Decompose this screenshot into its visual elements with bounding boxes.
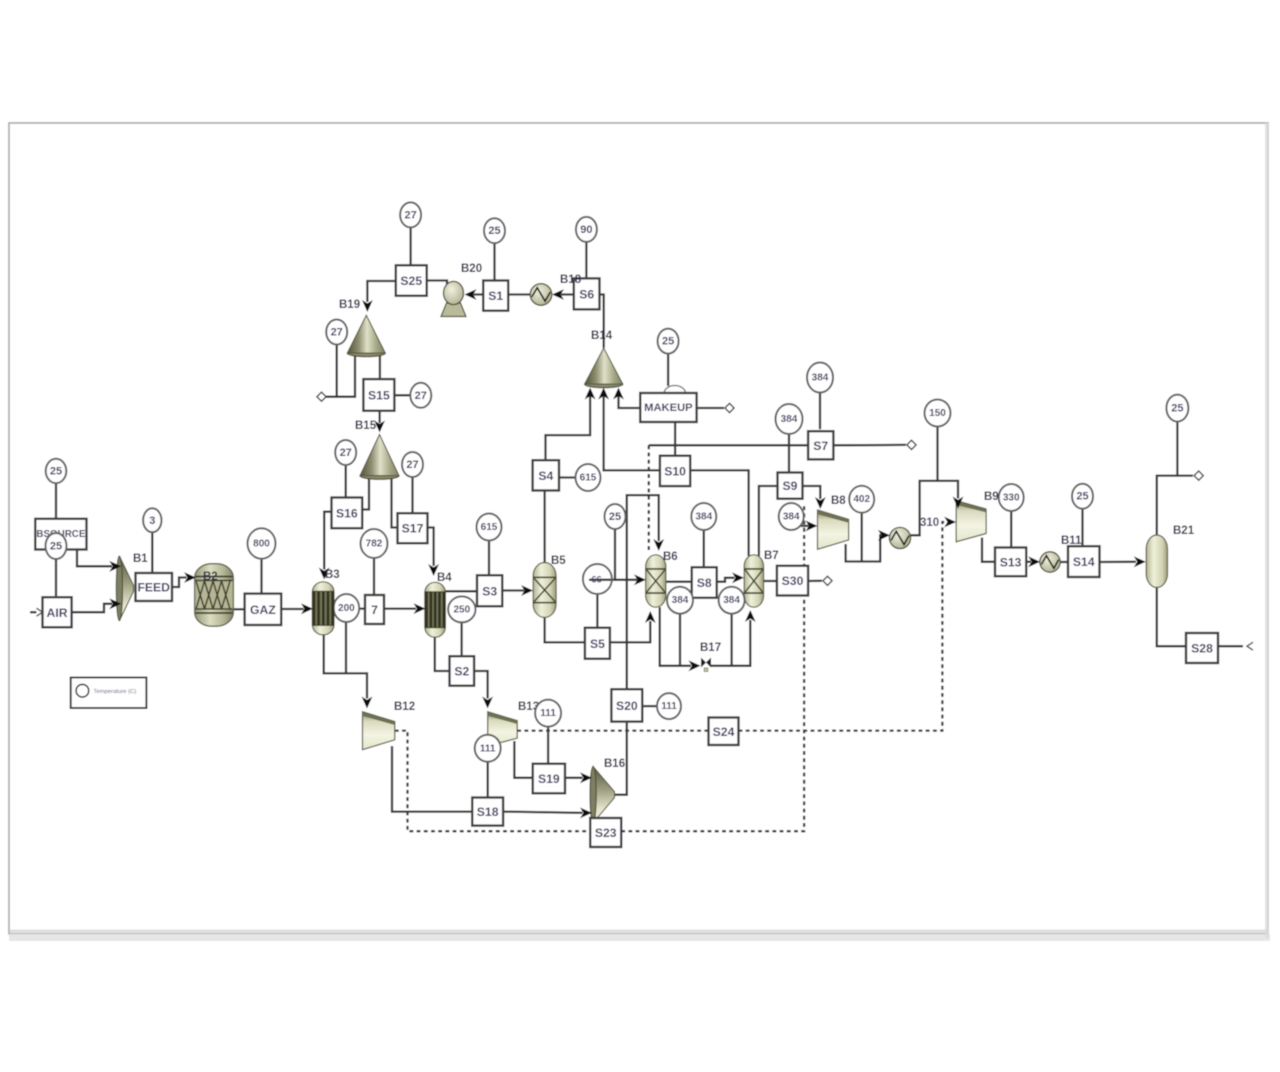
wire S16 to B3 tube inlet <box>324 512 331 570</box>
svg-text:B20: B20 <box>461 263 482 275</box>
svg-text:B21: B21 <box>1173 525 1195 537</box>
wire B15 left outlet to S16 box <box>362 476 369 510</box>
stream label box S1 <box>483 281 508 311</box>
wire 7 box to B4 <box>384 607 416 609</box>
svg-text:90: 90 <box>580 224 592 236</box>
wire B13 outlet to S19 box <box>514 741 532 778</box>
svg-text:384: 384 <box>723 595 740 606</box>
temperature circle 782 above 7 box <box>361 529 388 558</box>
temperature circle 25 above AIR <box>46 533 67 559</box>
wire 25 circle down to B6 inlet line <box>614 529 616 580</box>
stream label box S18 <box>472 798 503 826</box>
wire S9 to B7 top <box>759 486 778 556</box>
svg-text:800: 800 <box>253 539 270 550</box>
svg-text:310: 310 <box>920 517 939 529</box>
wire AIR to B1 lower inlet <box>72 604 112 612</box>
svg-text:S6: S6 <box>579 287 594 301</box>
dashed work stream B13 to S24 box <box>517 729 708 731</box>
wire 25 circle to S14 box <box>1081 509 1083 546</box>
svg-text:250: 250 <box>453 604 470 615</box>
reactor B5 <box>533 563 556 618</box>
temperature circle 402 above B8 outlet <box>849 486 874 513</box>
wire B18 to S1 box <box>508 293 530 295</box>
svg-text:25: 25 <box>662 336 674 348</box>
svg-text:S17: S17 <box>402 522 424 536</box>
wire 330 circle to S13 box <box>1010 511 1012 548</box>
wire 3 circle to FEED box <box>151 532 153 573</box>
dashed work stream S23 to B8 <box>621 506 804 831</box>
arrowhead into B5 <box>521 585 533 596</box>
svg-text:S10: S10 <box>664 464 686 478</box>
svg-text:S24: S24 <box>713 725 735 739</box>
heat exchanger B3 (shell and tube) <box>312 582 334 635</box>
svg-text:MAKEUP: MAKEUP <box>644 402 693 414</box>
svg-text:B8: B8 <box>831 495 846 507</box>
temperature circle 200 (behind B3) <box>334 594 360 622</box>
svg-text:25: 25 <box>50 466 62 478</box>
wire 384 circle tee down <box>679 614 681 666</box>
wire S8 to B7 <box>717 578 735 582</box>
stream label box S23 <box>590 818 621 847</box>
wire 111 circle to S18 box <box>487 762 489 798</box>
svg-text:3: 3 <box>149 515 155 527</box>
svg-text:S23: S23 <box>595 826 617 840</box>
svg-text:384: 384 <box>812 373 829 384</box>
svg-text:Temperature (C): Temperature (C) <box>94 689 137 695</box>
temperature circle 800 above GAZ <box>248 528 276 558</box>
stream label box S6 <box>574 278 600 309</box>
svg-text:66: 66 <box>591 575 601 585</box>
open diamond export B21 vapour <box>1194 471 1203 480</box>
wire B4 bottom to S2 box <box>435 637 450 671</box>
wire S15 down to B15 <box>378 411 380 423</box>
arrowhead into B10 <box>878 530 890 541</box>
stream label box S15 <box>363 379 394 411</box>
wire 384 circle tee down right <box>730 614 732 666</box>
arrowhead into B1 upper inlet <box>109 561 121 572</box>
svg-text:S3: S3 <box>482 584 497 598</box>
stream label box S7 <box>808 431 833 459</box>
temperature circle 90 above S6 <box>576 217 597 242</box>
arrowhead into B9 top <box>953 497 964 509</box>
arrowhead into B21 <box>1134 556 1146 567</box>
wire S25 to B19 inlet <box>367 281 395 302</box>
arrowhead into B3 top <box>319 568 330 580</box>
svg-text:615: 615 <box>481 522 498 533</box>
splitter B15 <box>360 435 399 480</box>
wire S6 to B18 <box>561 293 574 295</box>
svg-text:330: 330 <box>1003 493 1020 504</box>
stream label box BSOURCE <box>35 519 86 550</box>
mixer B1 <box>116 556 133 621</box>
arrowhead into B17 valve <box>689 660 701 671</box>
svg-text:27: 27 <box>406 459 418 471</box>
splitter B19 <box>347 315 385 357</box>
svg-text:S18: S18 <box>477 805 499 819</box>
svg-text:S28: S28 <box>1191 642 1213 656</box>
svg-text:B17: B17 <box>700 642 721 654</box>
temperature circle 150 above B9 <box>925 400 951 427</box>
wire S14 to B21 <box>1100 561 1137 564</box>
wire 800 circle to GAZ box <box>260 559 262 594</box>
arrowhead into B14 middle <box>598 388 609 400</box>
dashed heat stream B6 to S7 line <box>648 445 650 552</box>
wire 615 circle to S3 box <box>488 541 490 575</box>
temperature circle 27 above S16 <box>335 440 356 465</box>
wire S3 to B5 <box>502 589 524 591</box>
svg-text:25: 25 <box>50 541 62 553</box>
arrowhead into B2 <box>184 572 196 583</box>
wire S17 to B4 tube inlet <box>428 528 434 567</box>
temperature circle 250 right of B4 <box>448 596 475 622</box>
stream label box GAZ <box>245 594 282 625</box>
wire B4 to S3 box <box>445 590 477 592</box>
svg-text:27: 27 <box>340 447 352 459</box>
temperature circle 384 below left of S8 <box>667 587 693 614</box>
svg-text:111: 111 <box>540 708 556 719</box>
svg-text:S16: S16 <box>336 506 358 520</box>
wire FEED to B2 <box>172 578 187 588</box>
svg-text:384: 384 <box>783 512 800 523</box>
svg-text:GAZ: GAZ <box>250 603 276 617</box>
temperature circle 27 right of S15 <box>410 383 431 408</box>
wire B3 bottom to B12 inlet <box>324 635 367 699</box>
arrowhead into B20 pump <box>465 289 477 300</box>
svg-text:25: 25 <box>488 225 500 237</box>
wire 384 circle to S8 box <box>703 530 705 567</box>
svg-text:B1: B1 <box>133 553 148 565</box>
wire 25 circle to S1 box <box>493 243 495 281</box>
svg-text:B2: B2 <box>203 571 218 583</box>
feed arrow into AIR box <box>37 608 43 616</box>
svg-text:384: 384 <box>781 414 798 425</box>
svg-text:782: 782 <box>366 539 383 550</box>
svg-text:384: 384 <box>672 595 689 606</box>
wire B19 right outlet to S15 box <box>379 353 381 379</box>
svg-text:S15: S15 <box>368 388 390 402</box>
arrowhead into B8 top <box>815 497 826 509</box>
svg-text:S13: S13 <box>1000 555 1022 569</box>
arrowhead into B12 <box>362 697 373 709</box>
wire B10 to B9 inlet <box>910 481 958 535</box>
mixer B14 <box>585 348 623 388</box>
legend box Temperature (C) <box>71 678 147 709</box>
open diamond export after S30 <box>823 576 832 585</box>
svg-text:S9: S9 <box>783 479 798 493</box>
wire B15 right outlet to S17 box <box>392 476 398 528</box>
svg-text:B16: B16 <box>604 758 625 770</box>
wire B12 outlet to S18 box <box>392 746 472 812</box>
wire 384 circle stub to B8 <box>800 525 809 527</box>
arrowhead into B11 <box>1028 556 1040 567</box>
arrowhead into B15 apex <box>374 421 385 433</box>
temperature circle 66 at B6 inlet <box>583 564 612 594</box>
svg-text:111: 111 <box>661 701 677 712</box>
svg-text:S7: S7 <box>813 439 828 453</box>
svg-text:B12: B12 <box>394 701 415 713</box>
pump B20 <box>441 281 466 316</box>
wire GAZ to B3 <box>281 608 303 610</box>
temperature circle 111 right of S20 <box>657 693 681 719</box>
svg-text:AIR: AIR <box>47 606 68 620</box>
temperature circle 25 above B21 export <box>1166 395 1188 422</box>
svg-text:S4: S4 <box>538 469 553 483</box>
stream label box S24 <box>709 718 739 746</box>
wire 200 circle down to B12 line <box>345 622 347 673</box>
wire S10 to MAKEUP box <box>674 422 676 455</box>
temperature circle 25 above B6 <box>605 504 626 529</box>
svg-text:S14: S14 <box>1073 555 1095 569</box>
svg-text:25: 25 <box>609 511 621 523</box>
wire S2 to B13 inlet <box>474 671 488 699</box>
stream label box S2 <box>450 656 475 686</box>
wire 27 circle to S25 box <box>409 227 411 265</box>
svg-text:B6: B6 <box>663 551 678 563</box>
mixer B16 <box>590 767 615 823</box>
svg-text:S5: S5 <box>590 637 605 651</box>
svg-text:B4: B4 <box>437 572 452 584</box>
wire 111 circle to S19 box <box>547 727 549 764</box>
wire S18 to B16 lower inlet <box>503 812 582 813</box>
wire 782 circle to 7 box <box>373 558 375 595</box>
arrowhead into B3 shell inlet <box>301 603 313 614</box>
temperature circle 384 above S8 <box>691 503 716 530</box>
svg-text:27: 27 <box>404 209 416 221</box>
wire 384 circle down to S9 box <box>788 434 790 473</box>
wire 250 circle to S2 box <box>460 622 462 656</box>
svg-text:615: 615 <box>580 473 597 484</box>
stream label box S30 <box>777 566 808 596</box>
arrowhead into B16 lower <box>580 808 592 819</box>
wire heat stream line to S7 box <box>649 444 808 446</box>
arrowhead into B8 left <box>806 521 818 532</box>
stream label box S28 <box>1186 633 1218 663</box>
dashed work stream B12 to S23 box <box>395 731 590 832</box>
arrowhead into B6 left <box>634 574 646 585</box>
svg-text:S1: S1 <box>488 289 503 303</box>
turbine B8 <box>818 510 849 549</box>
temperature circle 384 below S9 <box>779 503 804 530</box>
svg-text:S20: S20 <box>616 699 638 713</box>
arrowhead into B9 left <box>944 517 956 528</box>
wire S1 to B20 <box>474 293 484 295</box>
svg-text:27: 27 <box>415 390 427 402</box>
svg-text:B19: B19 <box>339 299 360 311</box>
arrowhead into B6 top <box>653 539 664 551</box>
temperature circle 27 above S17 <box>402 452 423 477</box>
temperature circle 25 above S14 <box>1072 484 1093 509</box>
wire B20 pump outlet to S25 box <box>427 281 447 289</box>
reactor B6 <box>646 555 666 607</box>
svg-text:402: 402 <box>853 494 870 505</box>
flash drum B21 <box>1146 535 1167 588</box>
wire 27 circle to S17 box <box>411 477 413 513</box>
svg-text:S30: S30 <box>782 574 804 588</box>
temperature circle 27 left of B19 <box>326 320 347 345</box>
wire S20 up and into B6 top <box>627 495 659 689</box>
stream label box FEED <box>136 573 173 601</box>
svg-text:150: 150 <box>929 408 946 419</box>
svg-text:B3: B3 <box>325 569 340 581</box>
wire B11 to S14 box <box>1060 561 1068 563</box>
arrowhead into B19 apex <box>362 300 373 312</box>
wire S4 to B14 left inlet <box>546 395 591 460</box>
wire B21 bottom to S28 box <box>1157 588 1186 647</box>
wire S28 to export <box>1218 645 1243 647</box>
wire 27 circle tee to B19 export line <box>336 345 338 397</box>
stream label box S14 <box>1068 546 1100 577</box>
wire S9 to B8 inlet <box>803 486 821 499</box>
arrowhead into B6 bottom <box>645 611 656 623</box>
stream label box AIR <box>43 597 72 627</box>
turbine B12 <box>363 712 395 750</box>
arrowhead into B14 left <box>585 388 596 400</box>
stream label box S17 <box>398 513 428 543</box>
stream label box S20 <box>611 689 642 721</box>
temperature circle 384 below right of S8 <box>719 587 745 614</box>
arrowhead into B4 shell inlet <box>414 603 426 614</box>
stream label box S10 <box>660 456 690 486</box>
wire B21 top vapour to export <box>1157 476 1193 535</box>
open arrow end after S28 <box>1247 642 1253 650</box>
wire S7 to export <box>833 444 906 447</box>
open diamond export after S7 <box>907 440 916 449</box>
svg-text:B7: B7 <box>764 550 779 562</box>
svg-text:25: 25 <box>1076 491 1088 503</box>
wire B14 outlet up to S6 box <box>600 295 604 349</box>
stream label box S19 <box>533 764 565 794</box>
temperature circle 25 above MAKEUP <box>658 329 679 354</box>
wire B6 to S8 box <box>666 581 692 583</box>
svg-text:111: 111 <box>480 743 496 754</box>
wire S19 to B16 upper inlet <box>565 777 583 779</box>
stream label box S25 <box>396 265 427 296</box>
stream label box S9 <box>778 473 803 499</box>
reactor B2 (packed bed) <box>195 564 234 627</box>
wire B8 outlet to B10 <box>846 535 881 561</box>
arrowhead into B7 bottom <box>745 610 756 622</box>
MAKEUP feed dome <box>664 386 686 394</box>
wire S30 to export <box>808 580 822 583</box>
wire 25 circle to AIR box <box>55 558 57 597</box>
wire S5 to B6 bottom inlet <box>610 621 650 642</box>
wire B17 to B7 bottom inlet <box>711 620 751 666</box>
wire 27 circle to S16 box <box>345 465 347 498</box>
compressor B9 <box>956 501 986 542</box>
svg-text:S25: S25 <box>400 274 422 288</box>
svg-text:27: 27 <box>331 327 343 339</box>
wire 90 circle to S6 box <box>585 242 587 279</box>
wire 25 circle to MAKEUP dome <box>667 353 669 386</box>
arrowhead into B13 <box>482 697 493 709</box>
wire S4 to 615 circle <box>559 476 576 478</box>
dashed work stream S24 to B9 <box>739 522 948 731</box>
wire B7 to S30 box <box>764 580 777 582</box>
svg-text:B11: B11 <box>1061 535 1082 547</box>
temperature circle 111 above S19 <box>535 700 561 727</box>
open diamond export after MAKEUP <box>725 403 734 412</box>
heat exchanger B10 <box>889 527 910 548</box>
wire B5 top to S4 box <box>543 491 545 565</box>
stream label box S16 <box>332 498 363 529</box>
temperature circle 3 above FEED <box>143 508 161 532</box>
wire BSOURCE to B1 upper inlet <box>77 550 112 567</box>
wire 66 circle to S5 box <box>596 594 598 628</box>
wire into B6 left (through 66 circle) <box>589 579 637 581</box>
heat exchanger B11 <box>1040 552 1060 572</box>
svg-text:B15: B15 <box>355 420 377 432</box>
svg-text:25: 25 <box>1171 403 1183 415</box>
wire B6 bottom to B17 valve <box>660 607 691 666</box>
svg-text:B5: B5 <box>551 555 566 567</box>
wire B2 to GAZ box <box>233 608 244 610</box>
svg-text:200: 200 <box>338 603 355 614</box>
open diamond export end near B19 <box>317 392 326 401</box>
wire S13 to B11 <box>1026 561 1031 563</box>
wire B9 outlet to S13 box <box>982 538 995 562</box>
page sheet <box>9 123 1268 934</box>
temperature circle 615 right of S4 <box>576 464 601 491</box>
wire B3 to 7 box <box>334 607 365 609</box>
wire S20 to 111 circle <box>642 705 657 707</box>
stream label box S4 <box>533 460 559 490</box>
heat exchanger B4 (shell and tube) <box>425 582 445 637</box>
valve B17 <box>701 658 711 672</box>
arrowhead into B14 right <box>613 388 624 400</box>
svg-text:384: 384 <box>695 512 712 523</box>
svg-text:FEED: FEED <box>137 581 170 595</box>
temperature circle 25 above S1 <box>484 218 505 243</box>
wire MAKEUP to B14 right inlet <box>619 395 641 408</box>
wire 25 circle tee down <box>1176 422 1178 476</box>
stream label box S5 <box>585 628 610 659</box>
wire B19 left outlet to export <box>326 353 355 397</box>
wire stub into AIR <box>30 611 37 613</box>
wire 25 circle to BSOURCE box <box>55 483 57 519</box>
svg-text:S19: S19 <box>538 772 560 786</box>
wire S10 to B14 middle inlet <box>604 395 660 470</box>
stream label box MAKEUP <box>640 393 696 422</box>
temperature circle 384 above S7 <box>807 363 833 393</box>
turbine B13 <box>488 712 518 746</box>
wire S10 right to B7 top <box>690 470 748 556</box>
stream label box S8 <box>692 567 717 598</box>
temperature circle 25 above BSOURCE <box>46 459 67 483</box>
wire 150 circle tee down <box>936 427 938 481</box>
wire 384 circle down to S7 box <box>819 393 821 430</box>
wire B5 bottom to S5 box <box>545 616 585 642</box>
temperature circle 27 above S25 <box>400 202 421 227</box>
svg-text:S8: S8 <box>697 576 712 590</box>
reactor B7 <box>744 555 764 607</box>
temperature circle 330 above S13 <box>999 484 1024 511</box>
stream label box 7 <box>365 595 384 624</box>
wire B16 outlet to S20 box <box>614 722 627 795</box>
temperature circle 384 above S9 upper <box>776 404 803 434</box>
wire S15 to 27 circle <box>394 394 410 396</box>
svg-text:B18: B18 <box>560 274 582 286</box>
arrowhead into B16 upper <box>580 772 592 783</box>
wire MAKEUP to export <box>697 407 724 409</box>
svg-text:B14: B14 <box>591 330 613 342</box>
svg-text:B9: B9 <box>984 491 999 503</box>
stream label box S13 <box>995 548 1026 577</box>
arrowhead into B1 lower inlet <box>109 598 121 609</box>
svg-text:S2: S2 <box>454 664 469 678</box>
wire 402 circle tee down <box>861 513 863 562</box>
stream label box S3 <box>477 575 502 606</box>
heat exchanger B18 <box>530 284 552 306</box>
